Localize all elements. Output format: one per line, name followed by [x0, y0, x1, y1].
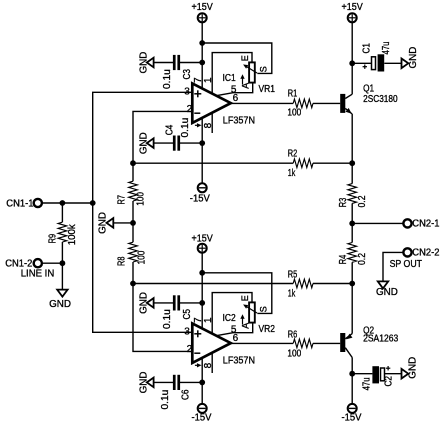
svg-text:LF357N: LF357N	[223, 115, 255, 126]
+15V supply IC2	[192, 234, 214, 253]
wire R5 feedback	[133, 283, 293, 285]
resistor R4	[338, 243, 368, 266]
svg-text:R6: R6	[288, 330, 298, 341]
svg-text:C4: C4	[165, 124, 176, 135]
svg-text:LINE IN: LINE IN	[21, 269, 55, 280]
label SP OUT	[390, 259, 422, 270]
wire IC1 pin 3 input	[93, 92, 193, 203]
wire C6 to GND	[153, 381, 173, 383]
wire C4 to GND	[153, 142, 173, 144]
svg-text:R5: R5	[288, 270, 298, 281]
svg-text:+15V: +15V	[192, 2, 214, 13]
wire R5 node to Q2 emitter	[351, 284, 353, 334]
wire R1 to Q1 base	[313, 102, 340, 104]
svg-text:A: A	[241, 323, 251, 329]
junction C2/rail	[349, 371, 355, 377]
svg-text:IC1: IC1	[223, 73, 237, 84]
-15V supply Q2	[342, 404, 362, 424]
node input rail to IC2 pin 3	[93, 203, 193, 332]
ground C3	[138, 52, 153, 74]
svg-text:-15V: -15V	[192, 413, 212, 424]
junction R9 top	[60, 200, 66, 206]
svg-text:SP OUT: SP OUT	[390, 259, 422, 270]
svg-text:GND: GND	[138, 372, 149, 394]
svg-text:0.1u: 0.1u	[162, 309, 173, 329]
wire +15V rail to IC1 pin 7	[201, 23, 203, 89]
transistor Q1 2SC3180	[340, 84, 398, 114]
svg-text:8: 8	[203, 122, 214, 128]
resistor R2	[288, 148, 313, 179]
svg-text:47u: 47u	[362, 377, 373, 390]
wire C2 to GND	[384, 373, 401, 375]
connector CN1-2	[5, 258, 42, 269]
wire VR2 wiper S to +15V rail	[202, 273, 272, 314]
wire +15V rail to IC2 pin 7	[201, 253, 203, 328]
transistor Q2 2SA1263	[340, 326, 398, 358]
svg-text:+15V: +15V	[342, 2, 364, 13]
wire R5 node to IC2 pin 2	[133, 284, 192, 352]
svg-text:E: E	[240, 55, 250, 61]
ground C6	[138, 372, 153, 394]
connector CN2-2	[403, 247, 440, 258]
op-amp IC1 LF357N	[184, 73, 255, 129]
svg-text:R7: R7	[117, 195, 128, 205]
svg-text:2SA1263: 2SA1263	[363, 334, 398, 345]
svg-text:VR2: VR2	[259, 324, 276, 335]
svg-text:LF357N: LF357N	[223, 355, 255, 366]
op-amp IC2 LF357N	[184, 313, 255, 369]
junction R5/R8	[130, 281, 136, 287]
wire IC1 output to R1	[231, 102, 294, 104]
wire CN1-2	[42, 262, 63, 264]
svg-text:S: S	[259, 66, 269, 72]
wire R6 to Q2 base	[313, 342, 340, 344]
wire VR1 wiper S to +15V rail	[202, 43, 272, 73]
svg-text:100k: 100k	[67, 223, 78, 245]
label LINE IN	[21, 269, 55, 280]
ground CN2-2	[376, 281, 398, 297]
junction R2/emitter rail	[349, 160, 355, 166]
svg-text:1k: 1k	[288, 288, 296, 299]
svg-text:C5: C5	[182, 309, 193, 320]
resistor R3	[338, 184, 368, 208]
junction C4/rail	[199, 140, 205, 146]
wire C4 to -15V rail	[180, 142, 202, 144]
wire CN1-1 input	[42, 202, 93, 204]
connector CN1-1	[6, 198, 42, 209]
capacitor C6	[160, 375, 192, 410]
junction CN2-1/rail	[349, 221, 355, 227]
svg-text:C1: C1	[362, 43, 373, 54]
svg-text:R2: R2	[288, 148, 298, 159]
svg-text:GND: GND	[97, 212, 108, 234]
junction C3/rail	[199, 60, 205, 66]
junction R9 bottom	[60, 260, 66, 266]
svg-text:R3: R3	[338, 197, 349, 207]
svg-text:+15V: +15V	[192, 234, 214, 245]
svg-text:CN1-1: CN1-1	[6, 198, 34, 209]
wire C1 to rail	[352, 62, 371, 64]
wire C3 to GND	[153, 62, 173, 64]
svg-text:R1: R1	[288, 89, 298, 100]
wire IC1 pin 1 to VR1 E	[212, 53, 252, 94]
svg-text:GND: GND	[49, 299, 71, 310]
svg-text:100: 100	[287, 108, 301, 119]
svg-text:GND: GND	[407, 357, 418, 379]
wire R3 to CN2-1 node	[351, 203, 353, 242]
wire IC2 pin 1 to VR2 E	[212, 293, 252, 334]
svg-text:GND: GND	[376, 287, 398, 298]
ground C4	[138, 132, 153, 154]
svg-text:Q1: Q1	[363, 84, 374, 95]
wire CN2-1	[352, 222, 403, 224]
capacitor C1 47u	[362, 42, 393, 72]
svg-text:R4: R4	[338, 254, 349, 264]
svg-text:A: A	[241, 83, 251, 89]
svg-text:S: S	[259, 306, 269, 312]
capacitor C3	[162, 55, 193, 89]
wire C2 to rail	[352, 373, 372, 375]
wire R4 to R5 node	[351, 262, 353, 283]
svg-text:R8: R8	[117, 256, 128, 266]
wire R8 to R5 node	[132, 262, 134, 284]
capacitor C2 47u	[362, 366, 395, 390]
capacitor C5	[162, 295, 193, 329]
svg-text:CN2-2: CN2-2	[412, 247, 440, 258]
junction R7 GND	[130, 220, 136, 226]
wire IC2 pin 4 to -15V	[201, 358, 203, 405]
resistor R9	[47, 222, 78, 245]
-15V supply IC1	[190, 183, 210, 204]
svg-text:0.1u: 0.1u	[160, 390, 171, 410]
svg-text:C2: C2	[383, 376, 394, 387]
junction R2/R7	[130, 160, 136, 166]
wire R2 to Q1 emitter rail	[313, 162, 352, 164]
junction C1/rail	[349, 60, 355, 66]
svg-text:2: 2	[187, 104, 193, 115]
wire IC2 pin 8 stub	[211, 352, 213, 373]
svg-text:6: 6	[233, 93, 239, 104]
svg-text:IC2: IC2	[223, 313, 237, 324]
wire IC2 pin 5 to VR2 A	[216, 323, 253, 336]
+15V supply IC1	[192, 2, 214, 22]
svg-text:100: 100	[136, 192, 147, 206]
resistor R5	[288, 270, 313, 300]
wire R5 to output rail	[313, 283, 352, 285]
wire R2 feedback	[133, 162, 293, 164]
svg-text:GND: GND	[138, 132, 149, 154]
wire R7 to GND junction	[132, 201, 134, 242]
wire IC1 pin 8 stub	[211, 112, 213, 133]
svg-text:C6: C6	[181, 389, 192, 400]
resistor R1	[287, 89, 313, 119]
wire C6 to -15V rail	[180, 381, 202, 383]
svg-text:GND: GND	[138, 292, 149, 314]
svg-text:100: 100	[287, 349, 301, 360]
resistor R7	[117, 181, 147, 206]
svg-text:2SC3180: 2SC3180	[363, 94, 398, 105]
ground C1	[402, 47, 420, 69]
svg-text:1k: 1k	[288, 168, 296, 179]
wire IC1 pin 2 to R7 rail	[133, 111, 192, 181]
resistor R8	[117, 242, 148, 266]
wire Q1 emitter to R3	[351, 114, 353, 184]
junction C6/rail	[199, 380, 205, 386]
trimmer VR2	[240, 295, 275, 335]
wire C5 to +15V rail	[180, 302, 202, 304]
wire +15V to Q1 collector	[351, 23, 353, 95]
svg-text:VR1: VR1	[259, 84, 276, 95]
ground C2	[402, 357, 419, 379]
+15V supply Q1	[342, 2, 364, 22]
resistor R6	[287, 330, 313, 360]
svg-text:0.1u: 0.1u	[180, 118, 191, 138]
svg-text:3: 3	[184, 87, 190, 98]
junction +15V/VR2 S	[199, 270, 205, 276]
wire IC2 output to R6	[231, 342, 294, 344]
capacitor C4	[165, 118, 191, 151]
svg-text:-15V: -15V	[190, 193, 210, 204]
wire R7 GND stub	[113, 222, 133, 224]
ground C5	[138, 292, 153, 314]
svg-text:0.2: 0.2	[357, 195, 368, 207]
svg-text:100: 100	[136, 250, 147, 264]
wire CN1-2 to GND	[61, 263, 63, 289]
wire CN2-2 to GND	[383, 252, 404, 281]
svg-text:E: E	[240, 295, 250, 301]
svg-text:8: 8	[203, 362, 214, 368]
junction input/CN1-1	[90, 200, 96, 206]
ground CN1-2	[49, 290, 71, 311]
svg-text:3: 3	[184, 327, 190, 338]
svg-text:1: 1	[203, 77, 214, 83]
wire C3 to +15V rail	[180, 62, 202, 64]
junction C5/rail	[199, 300, 205, 306]
svg-text:GND: GND	[138, 52, 149, 74]
wire R9 leads	[61, 203, 63, 263]
svg-text:GND: GND	[408, 47, 419, 69]
trimmer VR1	[240, 55, 275, 95]
connector CN2-1	[403, 218, 440, 229]
svg-text:-15V: -15V	[342, 413, 362, 424]
junction +15V/VR1 S	[199, 40, 205, 46]
svg-text:C3: C3	[182, 69, 193, 80]
wire Q2 collector to -15V	[351, 358, 353, 405]
junction R5/rail	[349, 281, 355, 287]
-15V supply IC2	[192, 404, 212, 424]
svg-text:0.1u: 0.1u	[162, 69, 173, 89]
wire C5 to GND	[153, 302, 173, 304]
svg-text:47u: 47u	[381, 42, 392, 55]
svg-text:CN2-1: CN2-1	[412, 218, 440, 229]
wire IC1 pin 5 to VR1 A	[216, 83, 253, 96]
svg-text:R9: R9	[47, 234, 58, 244]
svg-text:2: 2	[187, 344, 193, 355]
svg-text:0.2: 0.2	[357, 253, 368, 265]
wire IC1 pin 4 to -15V	[201, 118, 203, 184]
svg-text:1: 1	[203, 317, 214, 323]
ground R7/R8 node	[97, 212, 113, 234]
wire C1 to GND	[384, 62, 401, 64]
svg-text:6: 6	[233, 333, 239, 344]
